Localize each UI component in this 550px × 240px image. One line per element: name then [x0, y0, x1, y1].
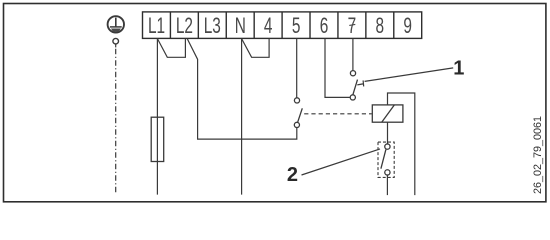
contact 2 top circle — [385, 144, 390, 149]
contact 2 blade — [381, 149, 386, 168]
svg-text:L1: L1 — [148, 14, 165, 38]
relay coil K1 — [372, 105, 403, 122]
dashed enclosure of contact 2 — [378, 142, 394, 177]
jumper N-4 — [242, 39, 270, 58]
svg-text:L2: L2 — [176, 14, 193, 38]
wire terminal 6 down and across — [325, 39, 350, 98]
switch 1 blade — [353, 80, 358, 95]
svg-text:26_02_79_0061: 26_02_79_0061 — [532, 116, 544, 194]
svg-text:N: N — [235, 14, 246, 38]
contact 2 bottom circle — [385, 170, 390, 175]
wire L1 down — [156, 39, 158, 195]
switch contact bottom — [294, 122, 299, 127]
wire coil top loop — [388, 93, 415, 195]
switch contact top — [294, 98, 299, 103]
switch 1 actuator tick — [357, 80, 363, 86]
protective earth symbol PE — [108, 16, 124, 32]
jumper L1-L2 — [157, 39, 185, 58]
svg-text:1: 1 — [453, 58, 464, 80]
svg-text:4: 4 — [264, 14, 273, 38]
svg-text:5: 5 — [292, 14, 301, 38]
switch 1 contact bottom — [350, 95, 355, 100]
leader line to label 1 — [365, 68, 454, 82]
wire N down — [241, 39, 243, 195]
PE dash-dot wire — [115, 49, 117, 195]
svg-text:6: 6 — [320, 14, 329, 38]
wire contact 2 down — [386, 175, 388, 195]
wire L2 to switch — [187, 39, 297, 140]
svg-text:9: 9 — [403, 14, 412, 38]
svg-text:8: 8 — [376, 14, 385, 38]
wire terminal 7 down — [352, 39, 354, 71]
switch 1 contact top — [350, 71, 355, 76]
earth connection node — [113, 38, 119, 47]
fuse F1 — [151, 117, 164, 161]
svg-text:7: 7 — [348, 14, 357, 38]
svg-text:2: 2 — [287, 164, 298, 186]
wire terminal 5 down — [296, 39, 298, 98]
terminal 7 crossbar — [349, 24, 355, 25]
leader line to label 2 — [302, 149, 381, 175]
mechanical linkage dashed — [304, 113, 372, 115]
terminal strip outline — [143, 12, 422, 39]
wire coil bottom — [387, 122, 389, 144]
switch blade (pump contact) — [298, 108, 303, 122]
svg-text:L3: L3 — [204, 14, 221, 38]
